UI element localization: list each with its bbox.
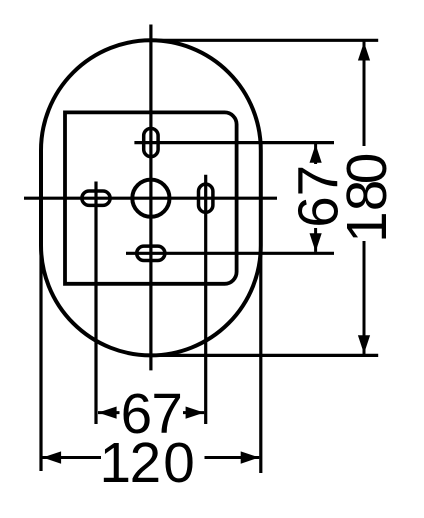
slot bottom — [137, 246, 165, 260]
slot top — [144, 128, 158, 156]
extension line 120 left — [39, 246, 42, 471]
dimension line 67 right — [310, 144, 322, 252]
extension line 180 top — [151, 39, 378, 42]
dimension line 67 bottom — [98, 407, 204, 419]
bottom slot centerline — [126, 252, 334, 255]
dimension line 120 — [43, 451, 260, 463]
svg-text:67: 67 — [287, 165, 350, 228]
outer oval body — [41, 40, 261, 355]
dimension text 67 bottom — [121, 383, 183, 446]
dimension line 180 — [358, 42, 370, 355]
extension line 180 bottom — [151, 354, 378, 357]
vertical centerline — [149, 25, 152, 371]
slot right — [199, 184, 213, 212]
right slot centerline / extension — [204, 175, 207, 424]
slot left — [82, 191, 110, 205]
mounting plate — [65, 112, 237, 283]
left slot centerline / extension — [94, 182, 97, 425]
dimension text 180 — [336, 153, 399, 243]
horizontal centerline — [24, 197, 277, 200]
dimension text 120 — [100, 432, 195, 495]
dimension text 67 right — [287, 165, 350, 228]
extension line 120 right — [259, 246, 262, 473]
top slot centerline — [134, 141, 334, 144]
svg-text:120: 120 — [100, 432, 195, 495]
center hole — [132, 180, 169, 217]
